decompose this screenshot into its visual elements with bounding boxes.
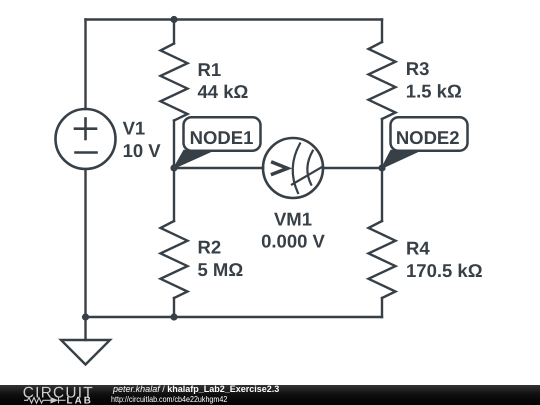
wire left vertical lower [84,169,86,317]
wire NODE2 to R4 [381,168,383,221]
wire NODE1 to VM1 [174,167,263,169]
svg-text:44 kΩ: 44 kΩ [198,81,249,102]
wire R3 to NODE2 [381,119,383,168]
svg-text:170.5 kΩ: 170.5 kΩ [406,260,483,281]
svg-text:R3: R3 [406,58,430,79]
svg-text:V1: V1 [123,118,146,139]
junction NODE1 [170,164,177,171]
wire right vertical top stub [381,20,383,43]
voltmeter VM1 [263,138,323,198]
svg-text:R4: R4 [406,238,430,259]
svg-text:R1: R1 [198,59,222,80]
svg-text:NODE1: NODE1 [190,127,254,148]
svg-text:VM1: VM1 [274,209,312,230]
wire R1 to NODE1 [173,121,175,169]
footer text [113,385,279,404]
svg-text:1.5 kΩ: 1.5 kΩ [406,80,462,101]
wire bottom horizontal [86,316,383,318]
svg-text:LAB: LAB [67,396,93,405]
svg-text:0.000 V: 0.000 V [261,231,325,252]
node NODE1 callout [174,117,261,168]
wire middle vertical top stub [173,20,175,44]
resistor R3 [369,42,396,119]
junction NODE2 [378,164,385,171]
svg-text:10 V: 10 V [123,140,162,161]
svg-text:R2: R2 [198,237,222,258]
svg-text:NODE2: NODE2 [396,127,460,148]
voltage source V1 [56,109,116,169]
resistor R2 [161,221,188,298]
node junction dots [82,16,386,321]
node NODE2 callout [382,117,468,168]
wire top horizontal [86,18,383,20]
resistor R1 [161,44,188,121]
junction top middle [170,16,177,23]
wire VM1 to NODE2 [323,167,382,169]
wire NODE1 to R2 [173,168,175,221]
CircuitLab logo [0,380,110,405]
footer bar [0,385,540,405]
wire left vertical upper [84,20,86,110]
junction ground [82,313,89,320]
wire R4 to bottom [381,298,383,317]
svg-text:5 MΩ: 5 MΩ [198,259,244,280]
ground [61,317,110,365]
junction R2 bottom [170,313,177,320]
resistor R4 [369,221,396,298]
wire R2 to bottom [173,298,175,317]
